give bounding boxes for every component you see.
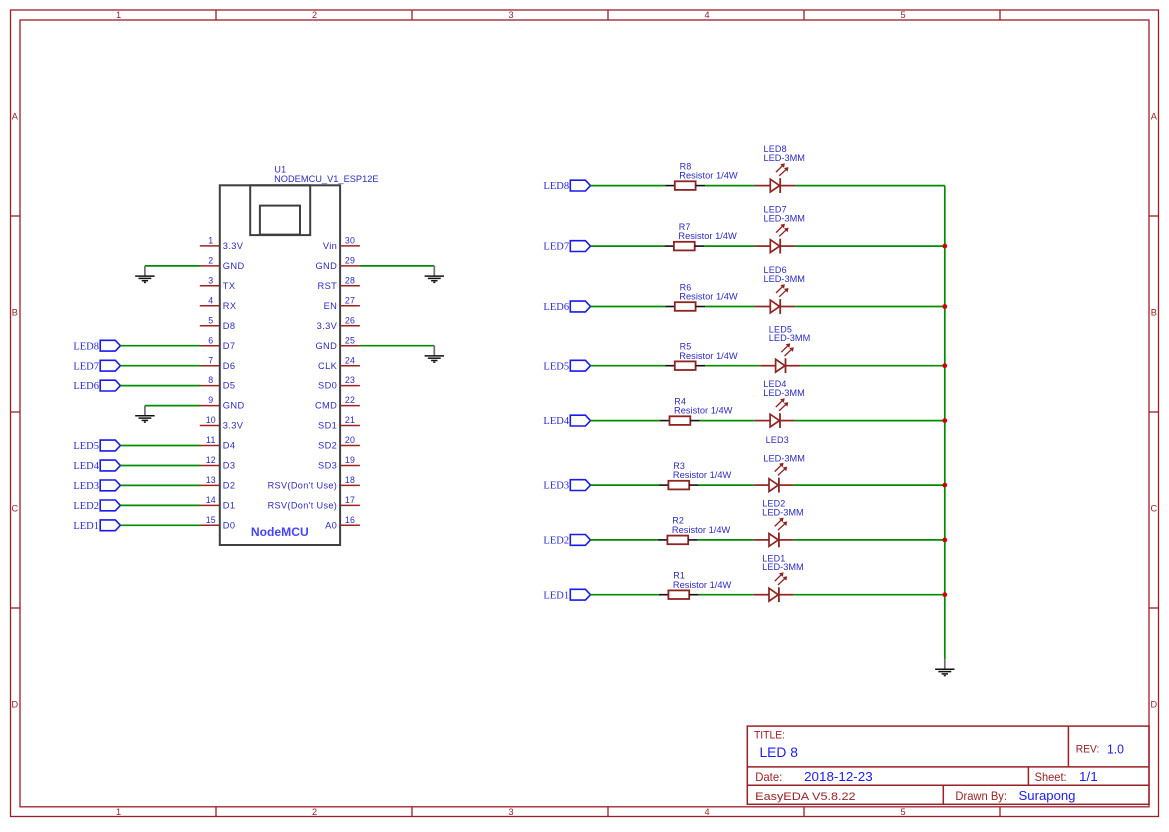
U1 pin 13 D2 <box>200 475 236 491</box>
svg-text:30: 30 <box>345 236 355 246</box>
svg-text:5: 5 <box>208 315 213 325</box>
U1 pin 16 A0 <box>325 515 360 531</box>
LED LED6 emission arrows <box>776 284 789 297</box>
wire LED LED2 to bus <box>794 539 945 541</box>
ground at pin 9 <box>135 406 154 423</box>
svg-text:SD3: SD3 <box>318 461 337 471</box>
svg-text:LED5: LED5 <box>73 441 99 452</box>
LED LED5 emission arrows <box>781 343 794 356</box>
netflag LED6 input <box>543 301 590 313</box>
wire R5 to LED LED5 <box>705 365 760 367</box>
netflag LED5 input <box>543 360 590 372</box>
resistor R5 Resistor 1/4W <box>665 342 705 371</box>
svg-text:B: B <box>12 307 18 317</box>
svg-text:LED-3MM: LED-3MM <box>763 388 805 398</box>
netflag LED7 at pin 7 <box>73 360 120 372</box>
U1 pin 28 RST <box>318 275 360 291</box>
svg-text:LED5: LED5 <box>543 361 569 372</box>
svg-text:4: 4 <box>704 10 709 20</box>
U1 pin 24 CLK <box>318 355 360 371</box>
svg-text:LED7: LED7 <box>543 242 569 253</box>
LED LED7 LED-3MM diode symbol <box>755 239 795 254</box>
svg-text:D: D <box>1150 699 1157 709</box>
wire LED8 flag to R8 <box>591 185 666 187</box>
svg-text:LED7: LED7 <box>73 361 99 372</box>
svg-text:14: 14 <box>206 495 216 505</box>
svg-text:D8: D8 <box>223 321 236 331</box>
wire LED2 flag to R2 <box>591 539 658 541</box>
svg-text:LED-3MM: LED-3MM <box>764 214 806 224</box>
svg-text:4: 4 <box>704 807 709 817</box>
svg-text:GND: GND <box>223 261 245 271</box>
svg-text:EasyEDA V5.8.22: EasyEDA V5.8.22 <box>755 791 855 803</box>
netflag LED2 at pin 14 <box>73 500 120 512</box>
svg-text:10: 10 <box>206 415 216 425</box>
svg-text:29: 29 <box>345 256 355 266</box>
svg-text:Resistor 1/4W: Resistor 1/4W <box>673 580 732 590</box>
svg-text:LED-3MM: LED-3MM <box>762 562 804 572</box>
svg-text:LED-3MM: LED-3MM <box>764 153 806 163</box>
svg-text:RSV(Don't Use): RSV(Don't Use) <box>268 481 338 491</box>
svg-text:28: 28 <box>345 275 355 285</box>
svg-text:1: 1 <box>116 10 121 20</box>
svg-text:Drawn By:: Drawn By: <box>955 790 1007 803</box>
netflag LED3 at pin 13 <box>73 480 120 492</box>
svg-text:3: 3 <box>508 807 513 817</box>
LED LED4 emission arrows <box>776 398 789 411</box>
U1 pin 3 TX <box>200 275 236 291</box>
svg-text:27: 27 <box>345 295 355 305</box>
wire LED3 flag to R3 <box>591 484 659 486</box>
U1 pin 29 GND <box>315 256 359 272</box>
junction node LED4-bus <box>942 418 947 423</box>
svg-text:1: 1 <box>116 807 121 817</box>
svg-text:Resistor 1/4W: Resistor 1/4W <box>679 292 738 302</box>
junction node LED5-bus <box>942 363 947 368</box>
svg-text:D2: D2 <box>223 481 236 491</box>
U1 pin 14 D1 <box>200 495 236 511</box>
svg-text:13: 13 <box>206 475 216 485</box>
svg-text:3: 3 <box>508 10 513 20</box>
netflag LED8 input <box>543 180 590 192</box>
svg-text:REV:: REV: <box>1076 743 1100 755</box>
svg-text:18: 18 <box>345 475 355 485</box>
wire LED1 flag to pin 15 <box>120 524 200 526</box>
wire pin25 GND to ground <box>360 345 434 347</box>
ground at pin 2 <box>135 266 154 283</box>
netflag LED6 at pin 8 <box>73 380 120 392</box>
svg-text:19: 19 <box>345 455 355 465</box>
vertical bus wire to ground <box>944 186 946 659</box>
LED LED2 LED-3MM diode symbol <box>754 533 794 548</box>
svg-text:4: 4 <box>208 295 213 305</box>
svg-text:3.3V: 3.3V <box>223 241 244 251</box>
svg-text:NodeMCU: NodeMCU <box>251 525 309 539</box>
frame row ticks left <box>11 216 21 608</box>
wire LED6 flag to pin 8 <box>120 385 200 387</box>
U1 pin 20 SD2 <box>318 435 360 451</box>
svg-text:LED-3MM: LED-3MM <box>763 453 805 463</box>
wire R7 to LED LED7 <box>704 245 755 247</box>
U1 pin 11 D4 <box>200 435 236 451</box>
svg-text:Date:: Date: <box>755 770 782 784</box>
svg-text:B: B <box>1151 307 1157 317</box>
wire R4 to LED LED4 <box>700 420 755 422</box>
wire pin9 GND to ground <box>145 405 200 407</box>
svg-text:D1: D1 <box>223 501 236 511</box>
LED LED6 LED-3MM diode symbol <box>755 299 795 314</box>
svg-text:16: 16 <box>345 515 355 525</box>
svg-text:LED 8: LED 8 <box>760 744 799 760</box>
frame column labels top <box>116 10 906 20</box>
wire LED LED4 to bus <box>795 420 945 422</box>
svg-text:5: 5 <box>900 10 905 20</box>
U1 pin 30 Vin <box>323 236 360 252</box>
svg-text:D4: D4 <box>223 441 236 451</box>
svg-text:LED2: LED2 <box>543 536 569 547</box>
wire pin2 GND to ground <box>145 265 200 267</box>
resistor R1 Resistor 1/4W <box>659 571 699 600</box>
netflag LED8 at pin 6 <box>73 340 120 352</box>
U1 pin 5 D8 <box>200 315 236 331</box>
svg-text:RX: RX <box>223 301 237 311</box>
junction node LED7-bus <box>942 244 947 249</box>
netflag LED7 input <box>543 241 590 253</box>
svg-text:17: 17 <box>345 495 355 505</box>
svg-text:LED-3MM: LED-3MM <box>764 274 806 284</box>
wire R8 to LED LED8 <box>705 185 755 187</box>
svg-text:LED1: LED1 <box>73 521 99 532</box>
svg-text:Vin: Vin <box>323 241 337 251</box>
svg-text:6: 6 <box>208 335 213 345</box>
svg-text:GND: GND <box>223 401 245 411</box>
netflag LED3 input <box>543 480 590 492</box>
svg-text:1/1: 1/1 <box>1079 769 1098 784</box>
wire R1 to LED LED1 <box>699 594 754 596</box>
svg-text:U1: U1 <box>274 164 286 174</box>
U1 pin 4 RX <box>200 295 237 311</box>
svg-text:LED1: LED1 <box>543 590 569 601</box>
U1 pin 10 3.3V <box>200 415 244 431</box>
svg-text:9: 9 <box>208 395 213 405</box>
U1 pin 25 GND <box>315 335 359 351</box>
svg-text:A0: A0 <box>325 520 337 530</box>
ground at bus bottom <box>935 659 954 676</box>
svg-text:D: D <box>11 699 18 709</box>
U1 pin 22 CMD <box>315 395 360 411</box>
wire LED LED3 to bus <box>794 484 945 486</box>
svg-text:SD2: SD2 <box>318 441 337 451</box>
svg-text:3: 3 <box>208 275 213 285</box>
svg-text:2: 2 <box>312 807 317 817</box>
svg-text:3.3V: 3.3V <box>223 421 244 431</box>
resistor R8 Resistor 1/4W <box>665 161 705 190</box>
svg-text:D6: D6 <box>223 361 236 371</box>
svg-text:RST: RST <box>318 281 338 291</box>
svg-text:2: 2 <box>312 10 317 20</box>
svg-text:LED-3MM: LED-3MM <box>762 507 804 517</box>
wire LED5 flag to R5 <box>591 365 666 367</box>
svg-text:26: 26 <box>345 315 355 325</box>
U1 pin 18 RSV(Don&#39;t Use) <box>268 475 360 491</box>
wire LED3 flag to pin 13 <box>120 484 200 486</box>
wire LED1 flag to R1 <box>591 594 659 596</box>
U1 pin 9 GND <box>200 395 245 411</box>
wire LED LED5 to bus <box>800 365 944 367</box>
LED LED8 LED-3MM diode symbol <box>755 178 795 193</box>
frame row ticks right <box>1149 216 1159 608</box>
U1 pin 21 SD1 <box>318 415 360 431</box>
svg-text:SD0: SD0 <box>318 381 337 391</box>
svg-text:2: 2 <box>208 256 213 266</box>
svg-text:5: 5 <box>900 807 905 817</box>
svg-text:Resistor 1/4W: Resistor 1/4W <box>679 171 738 181</box>
svg-text:CLK: CLK <box>318 361 338 371</box>
wire LED7 flag to R7 <box>591 245 665 247</box>
wire pin29 GND to ground <box>360 265 434 267</box>
svg-text:TITLE:: TITLE: <box>754 730 785 742</box>
U1 pin 8 D5 <box>200 375 236 391</box>
svg-text:25: 25 <box>345 335 355 345</box>
svg-text:Resistor 1/4W: Resistor 1/4W <box>678 231 737 241</box>
svg-text:CMD: CMD <box>315 401 337 411</box>
svg-text:3.3V: 3.3V <box>317 321 338 331</box>
svg-text:D5: D5 <box>223 381 236 391</box>
svg-text:LED4: LED4 <box>543 416 569 427</box>
svg-text:Resistor 1/4W: Resistor 1/4W <box>674 406 733 416</box>
frame column labels bottom <box>116 807 906 817</box>
svg-text:LED3: LED3 <box>73 481 99 492</box>
wire LED LED1 to bus <box>794 594 945 596</box>
frame column ticks top <box>216 10 1000 20</box>
svg-text:1.0: 1.0 <box>1107 741 1124 756</box>
U1 pin 7 D6 <box>200 355 236 371</box>
LED LED7 emission arrows <box>776 224 789 237</box>
svg-text:Surapong: Surapong <box>1019 788 1076 803</box>
LED LED1 LED-3MM diode symbol <box>754 587 794 602</box>
svg-text:8: 8 <box>208 375 213 385</box>
svg-text:7: 7 <box>208 355 213 365</box>
U1 pin 27 EN <box>324 295 360 311</box>
svg-text:D3: D3 <box>223 461 236 471</box>
svg-text:LED3: LED3 <box>766 435 789 445</box>
wire R2 to LED LED2 <box>698 539 754 541</box>
svg-text:22: 22 <box>345 395 355 405</box>
svg-text:LED4: LED4 <box>73 461 99 472</box>
netflag LED5 at pin 11 <box>73 440 120 452</box>
junction node LED6-bus <box>942 304 947 309</box>
svg-text:C: C <box>1150 503 1157 513</box>
netflag LED4 input <box>543 415 590 427</box>
svg-text:Sheet:: Sheet: <box>1035 770 1067 784</box>
wire LED4 flag to pin 12 <box>120 465 200 467</box>
svg-text:20: 20 <box>345 435 355 445</box>
LED LED1 emission arrows <box>775 572 788 585</box>
U1 pin 6 D7 <box>200 335 236 351</box>
ground at pin 25 <box>425 346 444 363</box>
netflag LED1 input <box>543 589 590 601</box>
junction node LED2-bus <box>942 538 947 543</box>
svg-text:EN: EN <box>324 301 338 311</box>
svg-text:LED2: LED2 <box>73 501 99 512</box>
LED LED3 emission arrows <box>775 463 788 476</box>
svg-text:Resistor 1/4W: Resistor 1/4W <box>679 351 738 361</box>
svg-text:LED3: LED3 <box>543 481 569 492</box>
resistor R6 Resistor 1/4W <box>665 282 705 311</box>
wire LED2 flag to pin 14 <box>120 504 200 506</box>
LED LED3 LED-3MM diode symbol <box>754 478 794 493</box>
LED LED2 emission arrows <box>775 518 788 531</box>
frame row labels right <box>1150 111 1157 709</box>
svg-text:11: 11 <box>206 435 216 445</box>
U1 pin 19 SD3 <box>318 455 360 471</box>
svg-text:LED8: LED8 <box>73 341 99 352</box>
LED LED8 emission arrows <box>776 163 789 176</box>
U1 pin 23 SD0 <box>318 375 360 391</box>
svg-text:LED8: LED8 <box>543 181 569 192</box>
frame column ticks bottom <box>216 807 1000 817</box>
resistor R4 Resistor 1/4W <box>660 396 700 425</box>
svg-text:Resistor 1/4W: Resistor 1/4W <box>672 525 731 535</box>
svg-text:D7: D7 <box>223 341 236 351</box>
U1 pin 12 D3 <box>200 455 236 471</box>
svg-text:Resistor 1/4W: Resistor 1/4W <box>673 470 732 480</box>
svg-text:A: A <box>12 111 19 121</box>
wire R6 to LED LED6 <box>705 306 755 308</box>
U1 pin 26 3.3V <box>317 315 360 331</box>
svg-text:GND: GND <box>315 341 337 351</box>
svg-text:12: 12 <box>206 455 216 465</box>
title block outline <box>747 726 1149 804</box>
netflag LED4 at pin 12 <box>73 460 120 472</box>
netflag LED2 input <box>543 535 590 547</box>
wire LED LED6 to bus <box>795 306 945 308</box>
svg-text:LED6: LED6 <box>543 302 569 313</box>
svg-text:GND: GND <box>315 261 337 271</box>
junction node LED3-bus <box>942 483 947 488</box>
resistor R2 Resistor 1/4W <box>658 516 698 544</box>
resistor R3 Resistor 1/4W <box>659 461 699 490</box>
svg-text:A: A <box>1151 111 1158 121</box>
wire R3 to LED LED3 <box>699 484 754 486</box>
svg-text:23: 23 <box>345 375 355 385</box>
svg-text:2018-12-23: 2018-12-23 <box>804 769 873 784</box>
junction node LED1-bus <box>942 592 947 597</box>
svg-text:TX: TX <box>223 281 236 291</box>
svg-text:D0: D0 <box>223 520 236 530</box>
svg-text:LED6: LED6 <box>73 381 99 392</box>
svg-text:SD1: SD1 <box>318 421 337 431</box>
wire LED LED8 to bus <box>795 185 945 187</box>
ground at pin 29 <box>425 266 444 283</box>
LED LED4 LED-3MM diode symbol <box>755 413 795 428</box>
svg-text:24: 24 <box>345 355 355 365</box>
resistor R7 Resistor 1/4W <box>664 222 704 251</box>
svg-text:15: 15 <box>206 515 216 525</box>
svg-text:LED-3MM: LED-3MM <box>769 333 811 343</box>
frame row labels left <box>11 111 18 709</box>
svg-text:RSV(Don't Use): RSV(Don't Use) <box>268 501 338 511</box>
svg-text:1: 1 <box>208 236 213 246</box>
svg-text:C: C <box>11 503 18 513</box>
LED LED5 LED-3MM diode symbol <box>760 358 800 373</box>
netflag LED1 at pin 15 <box>73 520 120 532</box>
svg-text:NODEMCU_V1_ESP12E: NODEMCU_V1_ESP12E <box>274 174 379 184</box>
wire LED5 flag to pin 11 <box>120 445 200 447</box>
U1 pin 15 D0 <box>200 515 236 531</box>
U1 pin 1 3.3V <box>200 236 244 252</box>
svg-text:21: 21 <box>345 415 355 425</box>
U1 pin 17 RSV(Don&#39;t Use) <box>268 495 360 511</box>
wire LED6 flag to R6 <box>591 306 666 308</box>
U1 pin 2 GND <box>200 256 245 272</box>
wire LED LED7 to bus <box>795 245 945 247</box>
wire LED8 flag to pin 6 <box>120 345 200 347</box>
wire LED4 flag to R4 <box>591 420 660 422</box>
wire LED7 flag to pin 7 <box>120 365 200 367</box>
op-amp U1 body NODEMCU_V1_ESP12E <box>220 185 340 545</box>
